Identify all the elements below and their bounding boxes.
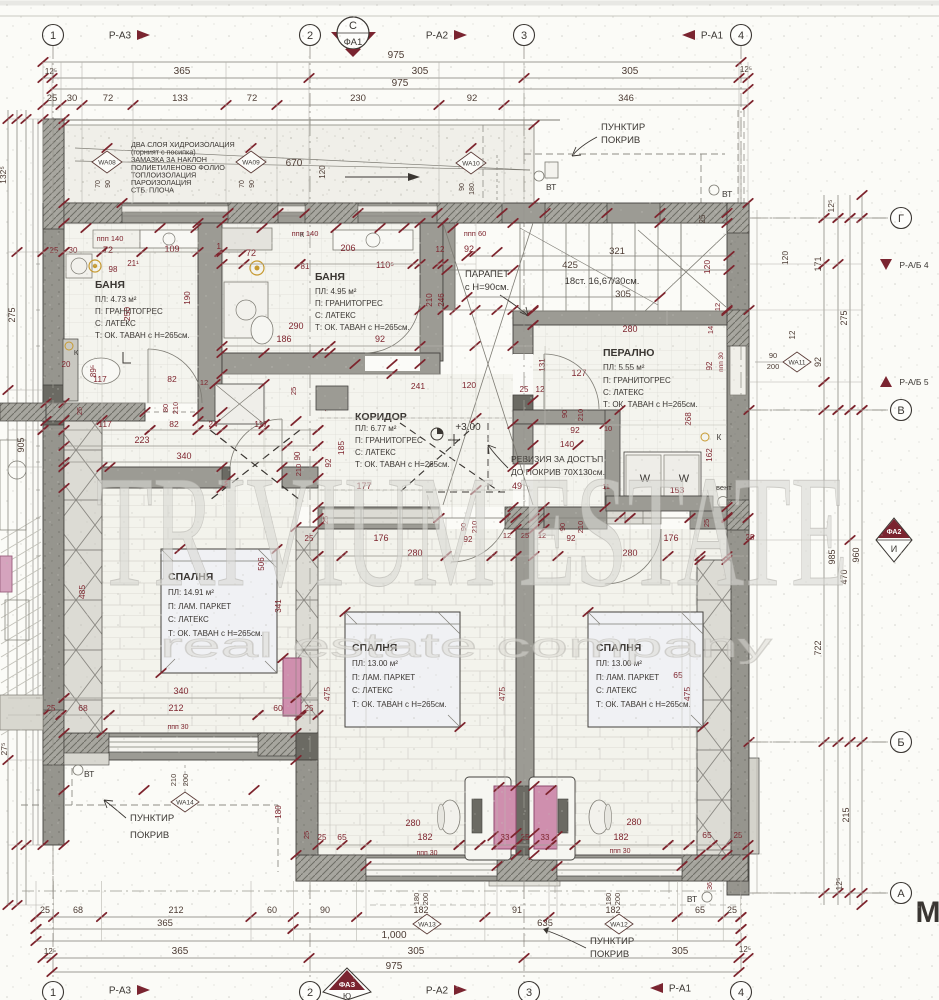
- bedroom 3 floor: [534, 529, 727, 855]
- right insulated wall bedroom 3: [697, 560, 731, 855]
- neighbour wall piece upper left: [0, 440, 26, 530]
- right outer wall: [727, 203, 749, 895]
- left vertical dimension lines: [7, 110, 9, 905]
- bedroom2 west wall lower: [296, 760, 318, 855]
- svg-text:TRIVIUM ESTATE: TRIVIUM ESTATE: [96, 442, 848, 620]
- bedroom 2 floor: [318, 529, 516, 855]
- central wall corridor piece: [513, 424, 533, 464]
- section marker P-А/Б 5: [880, 376, 892, 387]
- laundry door arc: [544, 354, 599, 409]
- inner construction lines vertical: [475, 203, 477, 518]
- laundry floor: [533, 325, 727, 424]
- vent box top middle: [545, 162, 558, 178]
- right extension lines: [749, 217, 862, 219]
- bedroom 1 top wall: [102, 467, 230, 488]
- bedroom2 radiator pink: [494, 786, 516, 849]
- bottom dimension row 975: [52, 971, 739, 973]
- left extension lines: [8, 118, 43, 120]
- axis lines overlay pass: [52, 120, 54, 905]
- bottom dimension row 365/635: [36, 928, 741, 930]
- north compass C/FA1: [331, 32, 376, 56]
- marker diamond WA08: [92, 151, 122, 173]
- neighbour roof hatch left: [1, 516, 41, 540]
- staircase diagonal lines: [638, 230, 726, 307]
- shaft with cross: [215, 384, 264, 424]
- bath1 tap dot: [89, 260, 101, 272]
- bottom wall bedroom 1: [43, 733, 298, 760]
- axis bubble В right: [891, 400, 912, 421]
- vent pipe ВТ top middle: [534, 171, 544, 181]
- stair dim lines: [467, 255, 729, 257]
- neighbour fixtures left: [5, 600, 29, 640]
- vent pipe ВТ top right: [709, 185, 719, 195]
- axis bubble А right: [891, 883, 912, 904]
- corridor floor: [222, 374, 513, 507]
- top dimension row 365/305/305: [43, 77, 750, 79]
- vent BT bottom right: [702, 892, 712, 902]
- mid dim row y518 ticks: [318, 517, 748, 519]
- axis bubble Г right: [891, 208, 912, 229]
- vertical axis lines 1-4: [52, 45, 54, 985]
- axis bubble 3 top: [514, 25, 535, 46]
- elevation mark +3.00: [448, 434, 460, 446]
- left outer wall: [43, 119, 64, 845]
- roof terrace area top-left: [64, 125, 534, 203]
- bottom dimension row 365/305/305: [43, 957, 748, 959]
- bedroom divider wall: [516, 529, 534, 855]
- bedroom 1 floor: [64, 467, 296, 733]
- axis diamond ФА2/И: [876, 518, 912, 562]
- corridor pier: [316, 386, 348, 410]
- window bottom bedroom 1: [109, 737, 258, 752]
- top extension lines: [42, 62, 44, 203]
- bedroom1 door arc: [230, 419, 282, 467]
- bedroom 3 top wall: [544, 507, 607, 529]
- top wall window sills: [122, 206, 228, 212]
- extra tick marks: [81, 224, 91, 232]
- right wall outer face line: [756, 210, 758, 893]
- central spine wall upper: [513, 311, 533, 354]
- staircase treads: [519, 223, 521, 311]
- bedroom3 bed: [588, 612, 703, 727]
- neighbour pink radiator left: [0, 556, 12, 592]
- bedroom2 door arc: [451, 506, 510, 562]
- bottom dimension row 1000 overall: [36, 940, 741, 942]
- misc dim extensions: [295, 488, 297, 733]
- closet W W: [624, 452, 701, 496]
- marker diamond WA13: [413, 914, 441, 934]
- section marker P-А/Б 4: [880, 259, 892, 270]
- bath 1 bottom wall: [0, 403, 46, 421]
- roof slope taper lines: [75, 148, 530, 170]
- horizontal axis lines right: [752, 217, 888, 219]
- bath2 shower: [224, 282, 268, 338]
- bedroom1 bed: [161, 549, 277, 673]
- roof slope arrow: [345, 176, 408, 178]
- wall junction tick marks: [59, 199, 69, 207]
- construction guide lines horizontal: [36, 251, 40, 253]
- horizontal axis overlay Г В Б А: [745, 217, 888, 219]
- window axis dashed verticals bottom: [554, 705, 556, 900]
- stair bottom wall: [513, 311, 727, 325]
- axis bubble 1 bottom: [43, 982, 64, 1000]
- axis bubble 4 bottom: [731, 982, 752, 1000]
- bath 2 bottom wall: [222, 353, 440, 374]
- top main wall: [64, 203, 748, 223]
- axis bubble Б right: [891, 732, 912, 753]
- closet bottom wall: [606, 496, 713, 511]
- stair hall left wall: [443, 223, 455, 310]
- top dimension row 975 overall: [43, 61, 741, 63]
- bath2 counter: [222, 228, 272, 250]
- bath2 door arc: [365, 298, 420, 353]
- bedroom2 bed: [345, 612, 460, 727]
- bedroom 2 top wall: [318, 507, 439, 529]
- right vertical dimension lines: [823, 195, 825, 905]
- bedroom1 radiator pink: [283, 658, 301, 716]
- bath1 toilet: [82, 358, 120, 384]
- axis bubble 2 top: [300, 25, 321, 46]
- marker diamond WA11 right: [783, 352, 811, 372]
- bedroom3 door arc: [605, 529, 661, 584]
- bottom dimension row segments 1000: [36, 916, 741, 918]
- dashed roof outline top right: [524, 153, 725, 155]
- long dashed line y891: [22, 890, 745, 892]
- window bottom bedroom 2: [366, 858, 497, 876]
- axis diamond ФАЗ bottom: [323, 968, 371, 1000]
- window bottom bedroom 3: [557, 858, 682, 876]
- neighbour wall piece lower left: [0, 695, 43, 730]
- bedroom2 desk: [465, 777, 511, 860]
- axis bubble 1 top: [43, 25, 64, 46]
- balcony slab strip: [489, 877, 560, 886]
- roof dashed outline bottom: [370, 904, 741, 906]
- laundry bottom wall: [513, 410, 620, 424]
- bath2 tap dot: [250, 261, 264, 275]
- bath2 toilet: [251, 316, 273, 344]
- marker diamond WA09: [236, 151, 266, 173]
- marker diamond WA12: [605, 914, 633, 934]
- bath1 vanity: [93, 230, 140, 248]
- top dimension row 975 second: [52, 88, 748, 90]
- wall between bathrooms: [198, 223, 222, 421]
- top dimension row segments 25-346: [43, 104, 748, 106]
- inner construction lines horizontal: [43, 251, 222, 253]
- corridor guide lines: [320, 489, 513, 491]
- roof dashed outline bottom left: [21, 804, 278, 806]
- bath1 nook wall: [63, 339, 78, 401]
- closet left wall: [605, 410, 620, 517]
- bath1 door arc: [148, 349, 202, 403]
- bath 2 right wall: [420, 223, 443, 361]
- left insulated wall bedroom 1: [64, 420, 102, 733]
- axis bubble 2 bottom: [300, 982, 321, 1000]
- bedroom3 desk: [529, 777, 575, 860]
- right wall hatch piers: [727, 310, 749, 346]
- bottom extension lines: [35, 881, 37, 941]
- marker diamond WA14: [171, 792, 199, 812]
- bath1 washing machine: [66, 254, 92, 278]
- nook floor: [533, 424, 727, 507]
- roof access hatch dashed X: [400, 423, 500, 492]
- wall step bedroom1 / bedroom2: [296, 527, 318, 760]
- axis bubble 4 top: [731, 25, 752, 46]
- svg-text:real estate company: real estate company: [160, 627, 772, 665]
- bath1 corner tap: [65, 342, 73, 350]
- bedroom3 radiator pink: [534, 786, 557, 849]
- bath1 corner mark L: [123, 352, 131, 363]
- bottom wall bedrooms 2-3: [296, 855, 748, 881]
- axis bubble 3 bottom: [519, 982, 540, 1000]
- bath 1 floor: [64, 222, 198, 403]
- stair well open cross: [443, 223, 533, 505]
- bath 2 floor: [222, 222, 420, 353]
- ceiling access dashed: [210, 430, 300, 500]
- marker diamond WA10: [456, 152, 486, 174]
- neighbour separation lines left: [32, 119, 34, 845]
